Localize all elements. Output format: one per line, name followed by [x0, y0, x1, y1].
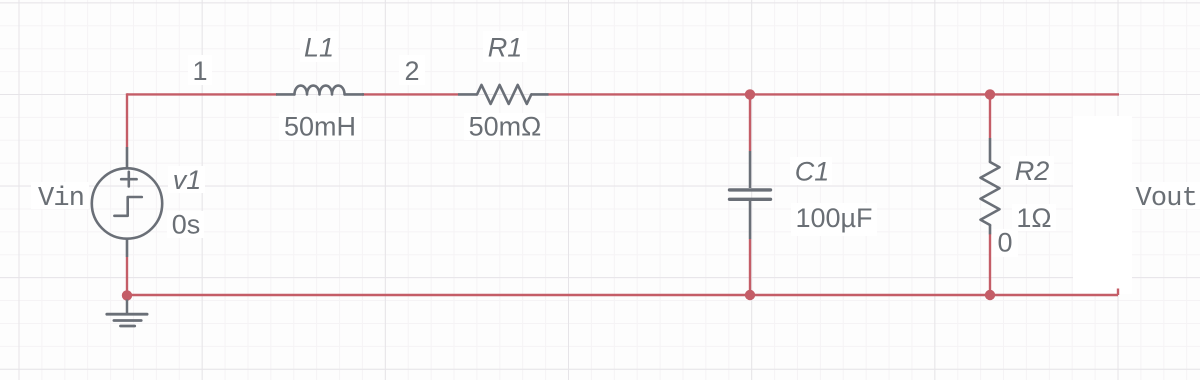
V1 plus sign: [121, 172, 136, 187]
svg-text:0: 0: [997, 228, 1012, 258]
svg-text:2: 2: [404, 56, 419, 86]
svg-text:R2: R2: [1015, 156, 1050, 186]
wire bottom rail: [127, 294, 1118, 296]
wire top rail segment C (output net): [548, 93, 1119, 95]
junction dot C1 bottom: [745, 290, 755, 300]
inductor L1: [276, 86, 364, 95]
junction dot R2 top: [985, 89, 995, 99]
wire C1 bottom lead (red): [749, 239, 751, 294]
svg-text:1Ω: 1Ω: [1016, 203, 1051, 233]
capacitor C1: [730, 151, 771, 239]
wire C1 top lead (red): [749, 95, 751, 151]
svg-text:L1: L1: [304, 33, 334, 63]
wire source bottom to ground node: [126, 257, 128, 296]
junction dot C1 top: [745, 89, 755, 99]
svg-text:1: 1: [192, 56, 207, 86]
ground symbol: [107, 300, 147, 327]
svg-text:50mΩ: 50mΩ: [469, 112, 542, 142]
svg-text:R1: R1: [488, 33, 523, 63]
V1 top lead: [126, 147, 129, 168]
V1 step waveform glyph: [114, 197, 141, 216]
white annotation box right of R2: [1073, 116, 1132, 294]
svg-text:Vin: Vin: [38, 184, 84, 214]
wire top rail segment A (node 1): [127, 93, 277, 95]
resistor R1: [458, 85, 549, 104]
wire R2 top lead (red): [989, 95, 991, 138]
junction dot R2 bottom: [985, 290, 995, 300]
svg-text:0s: 0s: [172, 210, 201, 240]
svg-text:100µF: 100µF: [795, 203, 872, 233]
wire top rail segment B (node 2): [362, 93, 458, 95]
voltage source V1 circle: [92, 147, 162, 257]
resistor R2: [981, 138, 1000, 234]
wire left vertical from node 1 to source: [126, 93, 128, 147]
svg-text:v1: v1: [173, 165, 202, 195]
svg-text:C1: C1: [795, 157, 830, 187]
wire stub at right end of bottom rail: [1117, 289, 1119, 296]
junction dot ground node: [122, 290, 132, 300]
wire R2 bottom lead (red): [989, 234, 991, 294]
svg-text:50mH: 50mH: [284, 112, 356, 142]
label halos: [31, 31, 1200, 257]
V1 bottom lead: [126, 239, 129, 257]
svg-text:Vout: Vout: [1136, 184, 1198, 214]
